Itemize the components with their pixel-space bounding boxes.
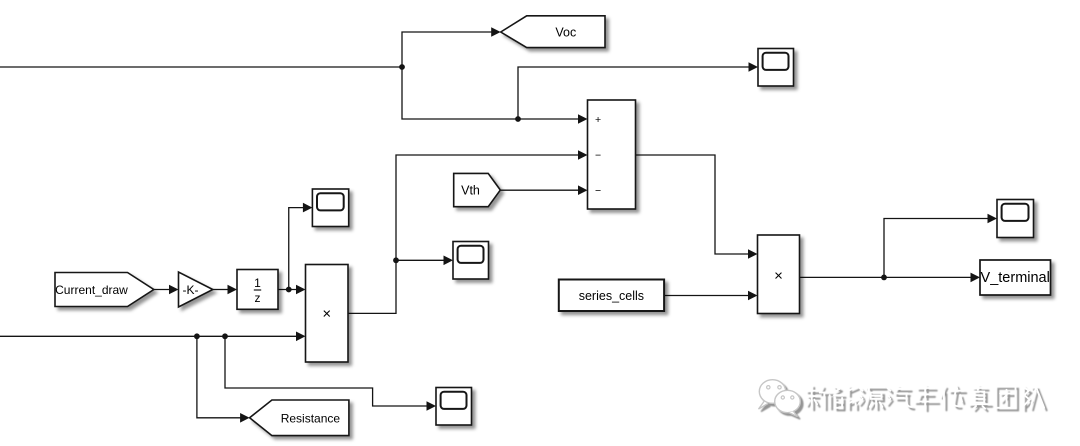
wire: branch to scope2 [396,259,445,261]
svg-text:V_terminal: V_terminal [981,270,1050,286]
from tag Current_draw [55,273,154,307]
wire: product2 output to V_terminal [800,276,972,278]
junction: resistance net 2 [222,333,228,339]
goto tag Voc [501,16,605,48]
unit delay block 1/z [237,270,278,310]
svg-text:×: × [322,306,331,323]
junction: resistance net 1 [194,333,200,339]
gain block -K- [179,272,213,307]
junction: SOC branch [399,64,405,70]
wire: Current_draw to gain [154,289,170,291]
wire: SOC input to junction [0,66,402,68]
junction: delay output branch [286,287,292,293]
constant block series_cells [559,280,664,312]
svg-text:z: z [255,291,261,305]
scope: V_terminal display [997,200,1034,238]
sum block U1 (+ - -) [588,100,636,209]
scope: product1 output display [453,242,489,280]
svg-text:series_cells: series_cells [579,289,644,303]
junction: product1 output branch [393,257,399,263]
wire: branch to scope bottom [225,336,428,406]
wire: resistance net to product1 in2 [0,335,297,337]
wire: branch down to sum + input [402,67,579,119]
scope: delay output display [312,189,348,227]
svg-text:−: − [595,150,601,162]
svg-text:Current_draw: Current_draw [55,283,128,297]
svg-text:Voc: Voc [555,25,576,39]
wire: product1 output to sum - input [348,155,579,313]
svg-text:−: − [595,185,601,197]
product block 2 (x) [758,235,800,314]
svg-text:1: 1 [254,276,261,290]
wire: branch to scope top-right [518,67,750,119]
junction: scope/sum branch [515,116,521,122]
wire: unit delay to product1 in1 [278,289,297,291]
svg-text:Vth: Vth [461,184,480,198]
svg-text:-K-: -K- [183,283,199,297]
wire: sum output to product2 in1 [636,155,749,254]
wire: gain to unit delay [213,289,229,291]
svg-text:×: × [774,267,783,284]
wire: branch up to scope right [884,219,989,278]
wire: branch up to Voc goto [402,32,492,67]
wire: series_cells to product2 in2 [664,295,749,297]
scope: resistance display [436,388,472,426]
from tag Vth [454,173,501,206]
output block V_terminal [980,260,1051,295]
svg-text:+: + [595,114,601,126]
wire: branch up to scope1 [289,208,304,290]
goto tag Resistance [250,400,349,436]
product block 1 (x) [306,265,349,363]
wire: branch down to Resistance goto [197,336,241,418]
scope: Voc display [758,49,794,87]
junction: V_terminal branch [881,275,887,281]
wire: Vth to sum - input [500,189,579,191]
svg-text:Resistance: Resistance [281,411,341,425]
watermark text: new energy vehicle simulation team [806,385,1044,408]
watermark wechat icon [759,380,801,417]
